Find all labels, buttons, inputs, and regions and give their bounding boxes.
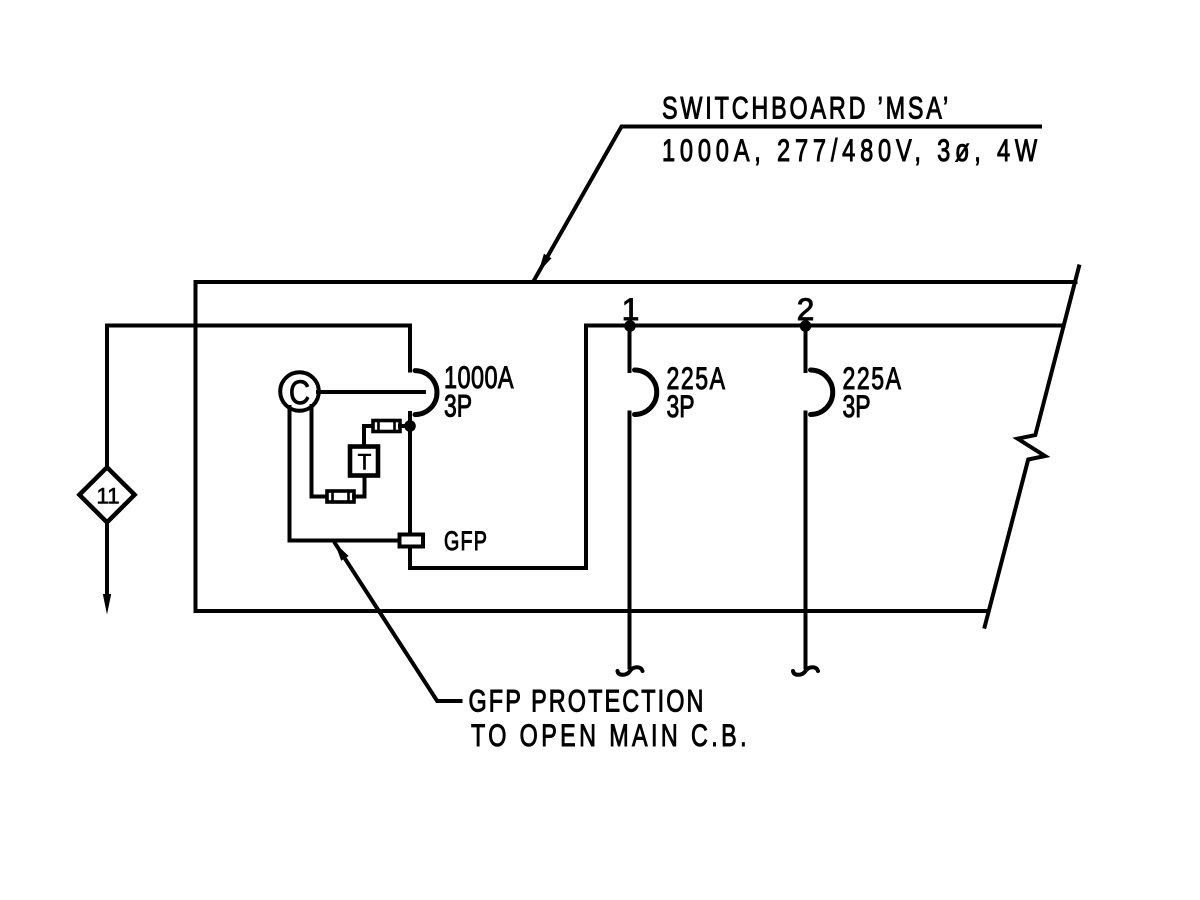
feeder 2 lower wire — [804, 413, 808, 668]
label 1000A, 277/480V, 3ø, 4W — [662, 132, 1042, 168]
svg-text:1000A, 277/480V, 3ø, 4W: 1000A, 277/480V, 3ø, 4W — [662, 132, 1042, 168]
main breaker top stub — [408, 326, 412, 371]
trip unit box T — [350, 447, 378, 476]
bus wire (right of main breaker) — [586, 324, 1064, 328]
svg-text:C: C — [289, 374, 310, 412]
fuse upper end caps — [379, 422, 395, 431]
GFP note arrowhead — [335, 543, 349, 561]
wire GFP box to bus return — [408, 547, 412, 569]
feeder 1 continuation squiggle — [618, 667, 643, 675]
svg-text:SWITCHBOARD ’MSA’: SWITCHBOARD ’MSA’ — [662, 90, 951, 126]
wire upper fuse to junction — [400, 424, 408, 428]
bus return wire vertical — [584, 326, 588, 569]
wire fuse to trip unit — [354, 476, 365, 497]
feeder 1 lower wire — [628, 413, 632, 668]
feeder tag diamond — [79, 467, 134, 522]
GFP sensor wire horizontal — [290, 539, 400, 543]
incoming service wire horizontal — [107, 324, 410, 328]
feeder 2 top stub — [804, 326, 808, 372]
feeder 1 junction dot — [624, 320, 636, 332]
GFP note leader line — [335, 544, 460, 702]
fuse lower body — [327, 491, 354, 502]
feeder 2 breaker arc 225A — [811, 370, 833, 415]
CT wire to breaker — [318, 390, 424, 394]
main breaker 1000A arc — [415, 371, 437, 415]
wire trip unit to upper fuse — [364, 426, 373, 447]
svg-text:2: 2 — [797, 291, 815, 327]
down arrowhead — [103, 594, 111, 615]
svg-text:11: 11 — [96, 484, 119, 509]
switchboard enclosure left edge — [194, 282, 198, 611]
feeder 1 breaker arc 225A — [635, 370, 657, 415]
svg-text:GFP: GFP — [444, 526, 488, 556]
feeder 2 continuation squiggle — [793, 667, 818, 675]
switchboard enclosure bottom edge — [196, 609, 988, 613]
fuse lower end caps — [333, 492, 349, 501]
svg-text:GFP PROTECTION: GFP PROTECTION — [469, 683, 706, 719]
CT left secondary wire vertical — [288, 407, 292, 541]
feeder 2 junction dot — [800, 320, 812, 332]
junction dot at breaker wire — [404, 420, 416, 432]
label SWITCHBOARD 'MSA' — [662, 90, 951, 126]
svg-text:1: 1 — [622, 291, 640, 327]
feeder 1 top stub — [628, 326, 632, 372]
fuse upper body — [373, 421, 400, 432]
bus return wire horizontal — [410, 566, 586, 570]
enclosure cut diagonal with break symbol — [985, 267, 1079, 627]
CT right secondary wire — [312, 406, 328, 497]
CT circle C — [280, 372, 319, 411]
svg-text:3P: 3P — [444, 388, 472, 424]
GFP sensor box — [400, 535, 424, 547]
main breaker lower wire — [408, 413, 412, 535]
svg-text:T: T — [358, 450, 372, 475]
svg-text:3P: 3P — [843, 388, 871, 424]
svg-text:TO OPEN MAIN C.B.: TO OPEN MAIN C.B. — [471, 717, 750, 753]
leader arrowhead — [538, 254, 551, 273]
leader line from label underline to enclosure — [533, 127, 1040, 282]
incoming service wire vertical drop — [105, 326, 109, 467]
wire below diamond — [105, 522, 109, 595]
switchboard enclosure top edge — [196, 280, 1076, 284]
svg-text:3P: 3P — [667, 388, 695, 424]
